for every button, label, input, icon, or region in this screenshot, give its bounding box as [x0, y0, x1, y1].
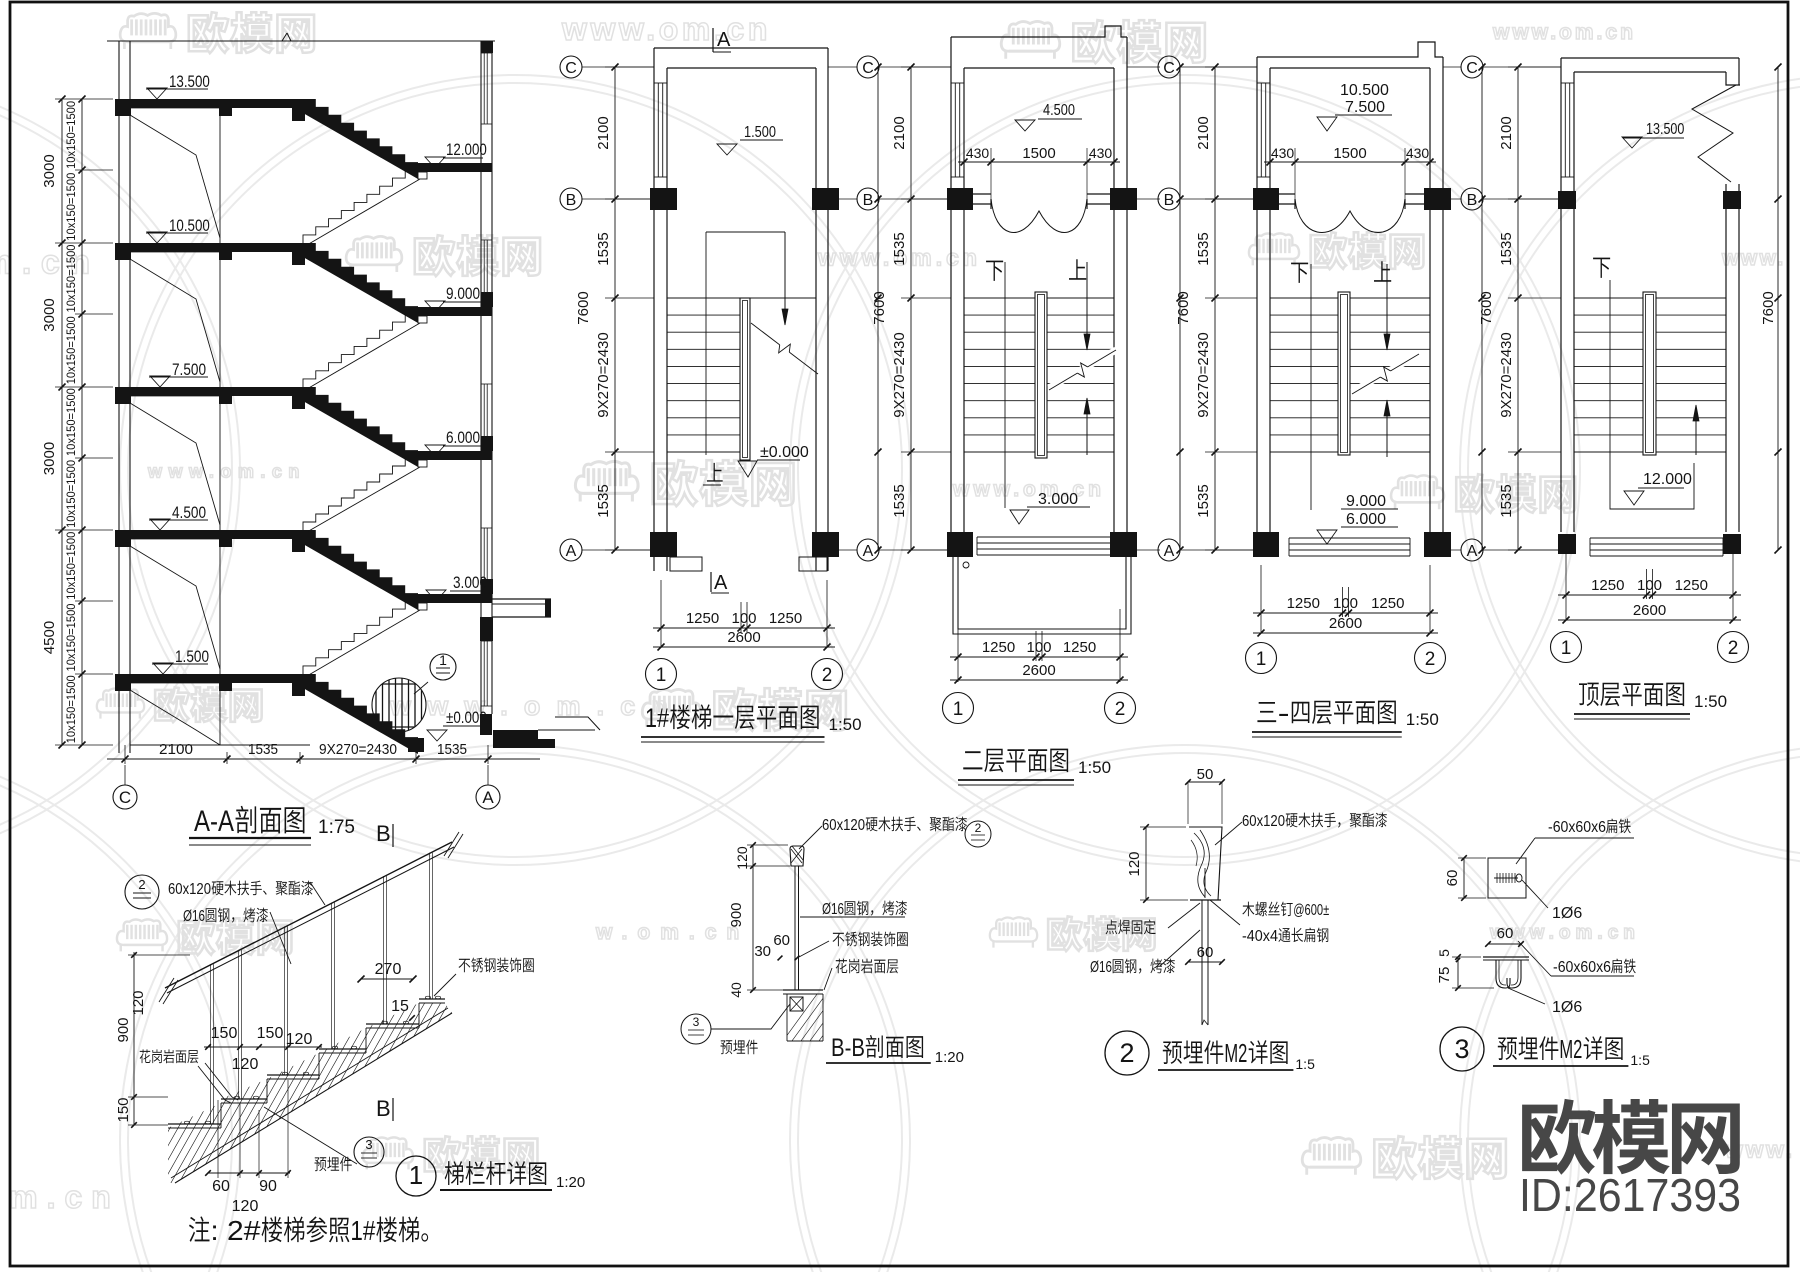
- plan left dimension chain: [1214, 67, 1216, 550]
- svg-text:2600: 2600: [1633, 602, 1666, 619]
- break line with Z: [1352, 377, 1380, 394]
- double swing door: [1295, 199, 1405, 233]
- railing detail label steel ring: [459, 959, 471, 973]
- svg-text:3: 3: [365, 1137, 372, 1152]
- stair direction char 上: [1374, 261, 1391, 281]
- svg-text:9X270=2430: 9X270=2430: [1195, 332, 1212, 418]
- 3.000 canopy: [492, 598, 551, 600]
- plan1 A cut mark top: [712, 28, 714, 52]
- plan3 treads: [1270, 297, 1338, 299]
- plan caption 三-四层平面图: [1257, 702, 1276, 722]
- m2 dim 120 left: [1145, 827, 1147, 900]
- svg-text:1: 1: [1561, 638, 1572, 659]
- svg-text:1250: 1250: [1591, 577, 1624, 594]
- stair direction char 下: [986, 261, 1003, 281]
- svg-text:150: 150: [257, 1025, 284, 1042]
- plan left dimension chain: [614, 67, 616, 550]
- ground interior line: [130, 744, 310, 746]
- svg-text:B: B: [1467, 192, 1478, 209]
- svg-text:A: A: [482, 788, 494, 807]
- svg-text:B: B: [376, 1096, 391, 1121]
- svg-text:3: 3: [693, 1015, 700, 1029]
- svg-text:5: 5: [1436, 949, 1452, 957]
- svg-text:A: A: [863, 543, 874, 560]
- svg-text:2100: 2100: [595, 116, 612, 149]
- section left wall: [118, 41, 120, 753]
- plan4 guide lines: [1610, 280, 1694, 509]
- svg-text:60: 60: [1444, 870, 1461, 887]
- svg-text:10x150=1500: 10x150=1500: [66, 532, 78, 600]
- svg-text:100: 100: [1333, 595, 1358, 612]
- 430 1500 430 dimension: [1264, 161, 1436, 163]
- svg-text:1535: 1535: [595, 484, 612, 517]
- svg-text:7600: 7600: [871, 291, 888, 324]
- svg-text:M2: M2: [1559, 1034, 1582, 1064]
- svg-text:-60x60x6: -60x60x6: [1548, 819, 1606, 836]
- svg-text:10x150=1500: 10x150=1500: [66, 388, 78, 456]
- svg-text:1250: 1250: [769, 610, 802, 627]
- svg-text:1535: 1535: [595, 232, 612, 265]
- svg-text:-: -: [1278, 698, 1290, 728]
- railing detail label embed: [315, 1157, 327, 1171]
- watermark sofa logos: [120, 13, 176, 49]
- left bay handrail lines below 13.500: [130, 115, 220, 238]
- svg-text:1:5: 1:5: [1630, 1052, 1650, 1068]
- right wall window/black pattern: [481, 41, 493, 53]
- svg-text:1: 1: [439, 652, 447, 668]
- svg-text:10.500: 10.500: [169, 216, 210, 235]
- railing detail left vertical dims: [133, 952, 135, 1125]
- svg-text:Ø16: Ø16: [1090, 959, 1112, 976]
- svg-text:60: 60: [212, 1178, 230, 1195]
- svg-text:2600: 2600: [1022, 662, 1055, 679]
- svg-text:1500: 1500: [1022, 145, 1055, 162]
- svg-text:www.om.cn: www.om.cn: [1492, 21, 1636, 44]
- svg-text:A: A: [566, 543, 577, 560]
- plan3 B columns: [1253, 188, 1279, 210]
- svg-text:10.500: 10.500: [1340, 82, 1389, 99]
- plan caption 顶层平面图: [1579, 683, 1599, 707]
- svg-text:www.om.cn: www.om.cn: [147, 462, 306, 482]
- break line with Z: [751, 323, 780, 345]
- left bay handrail lines below 1.500: [130, 690, 220, 745]
- note text: [189, 1216, 210, 1241]
- caption M2 detail 3: [1440, 1027, 1484, 1071]
- svg-text:-40x4: -40x4: [1242, 928, 1278, 945]
- plan1 treads: [667, 297, 816, 299]
- svg-text:430: 430: [1406, 145, 1430, 161]
- svg-text:1535: 1535: [1498, 232, 1515, 265]
- section bottom dimension line: [107, 758, 540, 760]
- svg-text:2: 2: [1119, 1038, 1134, 1068]
- svg-text:10x150=1500: 10x150=1500: [66, 245, 78, 313]
- plan4 walls: [1560, 58, 1562, 532]
- 7600 dimension line: [1777, 67, 1779, 550]
- plan stair central railing: [1643, 292, 1656, 455]
- railing detail ref circle 2: [125, 875, 159, 909]
- plan1 porch stubs: [670, 557, 702, 571]
- double swing door: [991, 199, 1087, 233]
- svg-text:1.500: 1.500: [744, 124, 776, 141]
- svg-text:9X270=2430: 9X270=2430: [1498, 332, 1515, 418]
- svg-text:B-B: B-B: [831, 1034, 865, 1062]
- svg-text:1500: 1500: [1333, 145, 1366, 162]
- plan caption 二层平面图: [963, 751, 982, 769]
- svg-text:2: 2: [138, 877, 145, 892]
- plan2 entry steps: [977, 536, 1111, 538]
- svg-text:90: 90: [259, 1178, 277, 1195]
- svg-text:3.000: 3.000: [453, 573, 487, 592]
- svg-text:9X270=2430: 9X270=2430: [891, 332, 908, 418]
- svg-text:9X270=2430: 9X270=2430: [319, 741, 397, 758]
- svg-text:10x150=1500: 10x150=1500: [66, 675, 78, 743]
- svg-text:B: B: [863, 192, 874, 209]
- svg-text:12.000: 12.000: [1643, 471, 1692, 488]
- svg-text:A: A: [714, 572, 728, 594]
- svg-text:C: C: [1163, 60, 1175, 77]
- svg-text:±0.000: ±0.000: [446, 708, 487, 727]
- svg-text:1535: 1535: [1498, 484, 1515, 517]
- svg-text:7.500: 7.500: [172, 360, 206, 379]
- svg-text:4.500: 4.500: [172, 503, 206, 522]
- svg-text:7.500: 7.500: [1345, 99, 1385, 116]
- svg-text:2: 2: [822, 665, 833, 686]
- svg-text:1Ø6: 1Ø6: [1552, 905, 1582, 922]
- section detail ref 1: [430, 654, 456, 680]
- plan4 roof break zigzag: [1692, 85, 1736, 182]
- svg-text:15: 15: [391, 998, 409, 1015]
- m3 dims 5 and 75: [1457, 957, 1459, 988]
- svg-text:60: 60: [1197, 944, 1214, 961]
- svg-text:1:50: 1:50: [1406, 710, 1439, 729]
- svg-text:2600: 2600: [727, 629, 760, 646]
- stair direction char 下: [1593, 258, 1610, 278]
- svg-text:13.500: 13.500: [169, 72, 210, 91]
- svg-text:-60x60x6: -60x60x6: [1553, 959, 1611, 976]
- svg-text:150: 150: [211, 1025, 238, 1042]
- svg-text:4.500: 4.500: [1043, 102, 1075, 119]
- svg-text:10x150=1500: 10x150=1500: [66, 173, 78, 241]
- plan axis bubbles: [1551, 632, 1582, 663]
- left bay handrail lines below 7.500: [130, 403, 220, 525]
- section grid circles: [113, 785, 137, 809]
- svg-text:1.500: 1.500: [175, 647, 209, 666]
- floor slab 7.500: [115, 387, 303, 396]
- railing detail steps: [168, 1123, 221, 1125]
- svg-text:Ø16: Ø16: [822, 901, 844, 918]
- svg-text:10x150=1500: 10x150=1500: [66, 316, 78, 384]
- plan stair central railing: [740, 298, 750, 460]
- break line with Z: [1049, 373, 1077, 390]
- svg-text:1535: 1535: [437, 741, 467, 758]
- floor slab 13.500: [115, 99, 303, 108]
- plan2 A columns: [947, 532, 973, 557]
- svg-text:30: 30: [754, 943, 771, 960]
- svg-text:1Ø6: 1Ø6: [1552, 999, 1582, 1016]
- svg-text:2: 2: [1115, 699, 1126, 720]
- svg-text:60x120: 60x120: [1242, 813, 1285, 830]
- plan2 walls: [950, 37, 952, 532]
- svg-text:270: 270: [375, 961, 402, 978]
- plan4 treads: [1574, 297, 1643, 299]
- section roof line: [107, 40, 495, 42]
- bb embed part below floor: [790, 997, 803, 1011]
- section left dimension chain: [61, 99, 63, 745]
- plan1 A columns: [650, 532, 677, 557]
- svg-text:2100: 2100: [1498, 116, 1515, 149]
- svg-text:Ø16: Ø16: [183, 908, 205, 925]
- svg-text:60: 60: [1497, 925, 1514, 942]
- m2 handrail wood section: [1189, 827, 1222, 900]
- svg-text:2100: 2100: [891, 116, 908, 149]
- svg-text:40: 40: [728, 982, 744, 998]
- m2 screw inside: [1204, 868, 1206, 898]
- svg-text:430: 430: [1271, 145, 1295, 161]
- bb ref circle 3: [681, 1014, 711, 1044]
- m3 plate square: [1488, 858, 1526, 898]
- svg-text:: 2#: : 2#: [210, 1215, 260, 1246]
- svg-text:@600±: @600±: [1293, 902, 1329, 919]
- svg-text:12.000: 12.000: [446, 140, 487, 159]
- svg-text:ID:2617393: ID:2617393: [1519, 1169, 1741, 1221]
- railing detail balusters: [210, 964, 212, 1124]
- svg-text:430: 430: [1089, 145, 1113, 161]
- plan1 top wall: [654, 47, 828, 49]
- caption M2 detail 2: [1105, 1031, 1149, 1075]
- svg-text:3.000: 3.000: [1038, 491, 1078, 508]
- svg-text:1250: 1250: [1063, 639, 1096, 656]
- svg-text:A-A: A-A: [194, 805, 234, 838]
- plan bottom dimensions: [950, 656, 1128, 658]
- plan3 top parapet with notch: [1257, 42, 1443, 57]
- svg-text:B: B: [1164, 192, 1175, 209]
- svg-text:C: C: [565, 60, 577, 77]
- stair direction char 上: [1069, 259, 1086, 279]
- bb baluster rod: [794, 866, 796, 990]
- svg-text:150: 150: [115, 1097, 132, 1122]
- ground slab and entrance steps: [493, 730, 538, 739]
- svg-text:10x150=1500: 10x150=1500: [66, 101, 78, 169]
- railing detail bottom dims: [208, 1172, 290, 1174]
- floor slab 10.500: [115, 243, 303, 252]
- railing detail handrail: [165, 842, 452, 988]
- left bay handrail lines below 10.500: [130, 259, 220, 382]
- plan2 B columns: [947, 188, 973, 210]
- svg-text:1:75: 1:75: [318, 817, 355, 838]
- svg-text:900: 900: [728, 902, 745, 927]
- svg-text:1:5: 1:5: [1295, 1056, 1315, 1072]
- plan axis bubbles: [646, 659, 677, 690]
- svg-text:1:50: 1:50: [1694, 692, 1727, 711]
- svg-text:10x150=1500: 10x150=1500: [66, 460, 78, 528]
- svg-text:10x150=1500: 10x150=1500: [66, 604, 78, 672]
- plan2 top parapet with notch: [951, 26, 1127, 37]
- svg-text:1: 1: [1256, 649, 1267, 670]
- plan1 walls: [653, 48, 655, 532]
- svg-text:2100: 2100: [159, 741, 193, 758]
- svg-text:1535: 1535: [248, 741, 278, 758]
- svg-text:1250: 1250: [1287, 595, 1320, 612]
- svg-text:1:20: 1:20: [935, 1049, 964, 1066]
- svg-text:1#: 1#: [645, 703, 669, 733]
- PLAN 3: floors 3-4 plan: [1180, 66, 1257, 68]
- svg-text:2600: 2600: [1329, 615, 1362, 632]
- floor slab 4.500: [115, 530, 303, 539]
- svg-text:1250: 1250: [982, 639, 1015, 656]
- svg-text:9X270=2430: 9X270=2430: [595, 332, 612, 418]
- plan3 A columns: [1253, 532, 1279, 557]
- svg-text:100: 100: [731, 610, 756, 627]
- bb floor granite: [783, 989, 823, 991]
- site logo text: [1522, 1099, 1595, 1175]
- caption railing detail: [396, 1156, 436, 1196]
- svg-text:1:50: 1:50: [1078, 758, 1111, 777]
- svg-text:3000: 3000: [41, 154, 58, 187]
- left bay handrail lines below 4.500: [130, 546, 220, 669]
- 430 1500 430 dimension: [958, 161, 1120, 163]
- svg-text:13.500: 13.500: [1646, 121, 1684, 138]
- svg-text:75: 75: [1436, 967, 1453, 984]
- plan2 guide lines: [1004, 262, 1006, 508]
- svg-text:2: 2: [1425, 649, 1436, 670]
- PLAN 1: first floor plan: [582, 66, 654, 68]
- svg-text:A: A: [717, 29, 731, 51]
- plan3 walls: [1256, 57, 1258, 532]
- m3 dim 60 left: [1463, 858, 1465, 898]
- svg-text:3000: 3000: [41, 298, 58, 331]
- m3 C-channel: [1496, 960, 1510, 988]
- svg-text:B: B: [376, 821, 391, 846]
- plan2 porch: [953, 557, 1131, 634]
- 7600 dimension line: [1179, 67, 1181, 550]
- plan1 shang char: [707, 463, 723, 482]
- svg-text:w.om.cn: w.om.cn: [0, 1179, 120, 1215]
- plan stair central railing: [1035, 292, 1047, 458]
- plan1 upper landing outline: [706, 231, 785, 233]
- svg-text:6.000: 6.000: [1346, 511, 1386, 528]
- plan4 A columns: [1558, 534, 1576, 554]
- svg-text:1: 1: [656, 665, 667, 686]
- svg-text:w.om.cn: w.om.cn: [595, 921, 749, 944]
- svg-text:www.om.cn: www.om.cn: [952, 478, 1105, 501]
- svg-text:4500: 4500: [41, 621, 58, 654]
- svg-text:±0.000: ±0.000: [760, 444, 809, 461]
- svg-text:www.: www.: [1721, 247, 1786, 270]
- svg-text:1535: 1535: [1195, 232, 1212, 265]
- plan1 A cut mark bottom: [710, 572, 712, 592]
- svg-text:1: 1: [409, 1160, 423, 1190]
- svg-text:60x120: 60x120: [822, 817, 865, 834]
- plan3 window strip at A: [1289, 537, 1410, 539]
- svg-text:120: 120: [232, 1198, 259, 1215]
- svg-text:900: 900: [115, 1017, 132, 1042]
- svg-text:www.om.cn: www.om.cn: [389, 691, 684, 721]
- plan3 guide lines: [1310, 264, 1312, 510]
- grid circle columns: [560, 56, 582, 78]
- svg-text:60: 60: [773, 932, 790, 949]
- section white flights (beyond): [303, 170, 418, 243]
- svg-text:120: 120: [734, 846, 750, 870]
- section black flights (cut): [303, 99, 418, 179]
- svg-text:100: 100: [1026, 639, 1051, 656]
- svg-text:9.000: 9.000: [1346, 493, 1386, 510]
- svg-text:60x120: 60x120: [168, 881, 211, 898]
- plan bottom dimensions: [653, 627, 835, 629]
- stair direction char 下: [1291, 263, 1308, 283]
- plan left dimension chain: [910, 67, 912, 550]
- svg-text:1535: 1535: [891, 484, 908, 517]
- svg-text:7600: 7600: [1478, 291, 1495, 324]
- plan4 window strip at A: [1590, 537, 1723, 539]
- bb handrail section: [790, 846, 804, 866]
- m3 screw symbol: [1494, 877, 1518, 879]
- svg-text:A: A: [1467, 543, 1478, 560]
- PLAN 2: second floor plan: [879, 66, 951, 68]
- svg-text:C: C: [862, 60, 874, 77]
- plan bottom dimensions: [1253, 612, 1438, 614]
- plan2 treads: [964, 297, 1035, 299]
- svg-text:C: C: [1466, 60, 1478, 77]
- svg-text:2100: 2100: [1195, 116, 1212, 149]
- svg-text:120: 120: [130, 990, 147, 1015]
- svg-text:1535: 1535: [891, 232, 908, 265]
- plan left dimension chain: [1517, 67, 1519, 550]
- svg-text:7600: 7600: [1175, 291, 1192, 324]
- plan1 B columns: [650, 188, 677, 210]
- watermark arcs: [0, 75, 240, 865]
- svg-text:1535: 1535: [1195, 484, 1212, 517]
- 7600 dimension line: [877, 67, 879, 550]
- svg-text:7600: 7600: [575, 291, 592, 324]
- svg-text:3: 3: [1454, 1034, 1469, 1064]
- plan axis bubbles: [943, 693, 974, 724]
- m3 top plate line: [1483, 956, 1529, 958]
- railing detail slab soffit: [175, 1013, 452, 1183]
- 7600 dimension line: [1481, 67, 1483, 550]
- floor slab 1.500: [115, 674, 303, 683]
- plan4 top roof edge: [1561, 57, 1739, 59]
- svg-text:7600: 7600: [1760, 291, 1777, 324]
- svg-text:6.000: 6.000: [446, 428, 480, 447]
- svg-text:1250: 1250: [1675, 577, 1708, 594]
- m2 rod below: [1201, 900, 1203, 1025]
- svg-text:9.000: 9.000: [446, 284, 480, 303]
- section right wall lines: [480, 41, 482, 735]
- plan stair central railing: [1338, 292, 1350, 455]
- svg-text:B: B: [566, 192, 577, 209]
- svg-text:m.cn: m.cn: [0, 244, 100, 282]
- svg-text:100: 100: [1637, 577, 1662, 594]
- svg-text:430: 430: [966, 145, 990, 161]
- svg-text:120: 120: [1126, 851, 1143, 876]
- svg-text:2: 2: [1728, 638, 1739, 659]
- svg-text:1#: 1#: [350, 1215, 375, 1246]
- svg-text:www.om.cn: www.om.cn: [561, 11, 771, 47]
- railing detail label granite: [140, 1049, 151, 1063]
- plan bottom dimensions: [1558, 594, 1741, 596]
- svg-text:A: A: [1164, 543, 1175, 560]
- svg-text:C: C: [119, 788, 131, 807]
- svg-text:M2: M2: [1224, 1038, 1247, 1068]
- svg-text:1:50: 1:50: [829, 715, 862, 734]
- svg-text:120: 120: [232, 1056, 259, 1073]
- railing detail ref circle 3: [354, 1137, 384, 1167]
- svg-text:50: 50: [1197, 766, 1214, 783]
- plan4 B columns: [1558, 191, 1576, 209]
- svg-text:2: 2: [975, 821, 982, 835]
- mid landings: [418, 163, 481, 172]
- bb dims: [752, 845, 754, 990]
